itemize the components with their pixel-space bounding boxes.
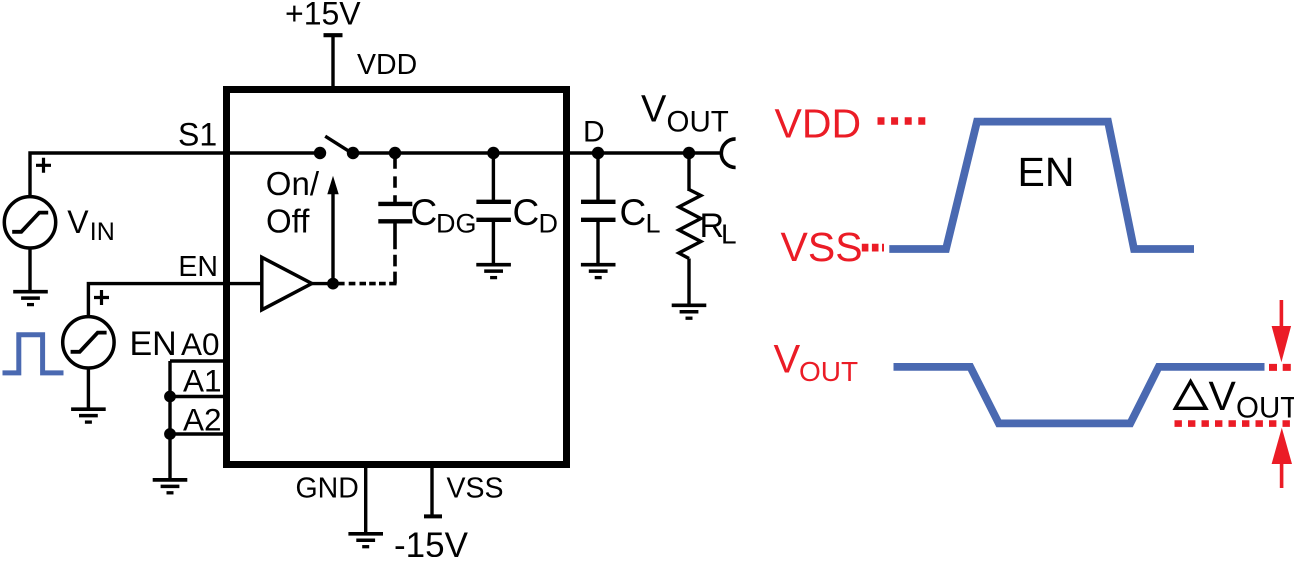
dashed wire buffer to CDG (horizontal) — [333, 282, 397, 286]
arrow up (red) — [1280, 463, 1284, 488]
VIN ramp symbol — [12, 213, 48, 232]
resistor RL — [679, 190, 701, 259]
switch S1 blade — [325, 136, 348, 151]
wire A bus vertical — [168, 361, 171, 478]
svg-text:A0: A0 — [181, 326, 220, 362]
svg-text:GND: GND — [296, 472, 359, 504]
svg-text:C: C — [411, 192, 438, 233]
VSS dotted level (red) — [862, 244, 884, 252]
IC box U1 — [227, 90, 567, 465]
node CDG top — [389, 147, 401, 159]
voltage source VIN — [4, 197, 55, 248]
VDD dotted level (red) — [878, 117, 926, 125]
svg-text:-15V: -15V — [394, 526, 469, 557]
VSS pin wire — [430, 468, 433, 515]
wire S1 input segment — [30, 153, 321, 196]
ground CL — [581, 265, 616, 278]
svg-text:IN: IN — [90, 218, 115, 246]
wire CD top — [492, 153, 495, 200]
svg-text:V: V — [1209, 373, 1237, 419]
deltaVOUT dotted level (red) — [1175, 420, 1294, 427]
VOUT waveform (blue) — [894, 367, 1265, 424]
svg-text:A2: A2 — [183, 402, 222, 438]
svg-text:S1: S1 — [178, 117, 217, 153]
svg-text:VDD: VDD — [775, 101, 862, 147]
arrow down (red) — [1280, 300, 1284, 327]
wire A2 — [170, 432, 226, 435]
+15V supply bar — [324, 33, 343, 37]
capacitor CD — [476, 200, 511, 204]
svg-text:VSS: VSS — [781, 224, 863, 270]
ground GND pin — [348, 534, 383, 547]
svg-text:D: D — [539, 209, 559, 239]
svg-text:OUT: OUT — [1236, 392, 1294, 425]
node A2 junction — [164, 428, 176, 440]
ground EN source — [71, 409, 106, 422]
node switch right — [347, 147, 359, 159]
voltage source EN plus sign — [94, 290, 109, 305]
svg-text:Off: Off — [266, 203, 310, 240]
deltaVOUT label — [1175, 382, 1206, 409]
voltage source VIN plus sign — [36, 158, 51, 173]
wire EN input — [88, 284, 261, 315]
svg-text:On/: On/ — [266, 165, 320, 202]
ground CD — [476, 265, 511, 278]
svg-text:V: V — [67, 204, 89, 240]
svg-text:EN: EN — [178, 251, 218, 283]
wire switch to output — [352, 151, 723, 154]
svg-text:VDD: VDD — [357, 49, 417, 81]
ground VIN — [13, 292, 48, 305]
wire EN source to ground — [87, 368, 90, 408]
svg-text:V: V — [641, 89, 667, 131]
-15V supply bar — [424, 514, 442, 518]
GND pin wire — [364, 468, 367, 532]
svg-text:A1: A1 — [183, 363, 222, 399]
wire CL top — [596, 153, 599, 200]
dashed wire CDG vertical upper — [393, 155, 397, 204]
VOUT high dotted extension (red) — [1269, 364, 1291, 371]
ground RL — [672, 305, 707, 318]
dashed wire CDG vertical lower — [393, 221, 397, 284]
svg-text:EN: EN — [130, 325, 177, 363]
svg-text:D: D — [583, 116, 605, 149]
svg-text:+15V: +15V — [285, 0, 361, 32]
svg-text:OUT: OUT — [667, 106, 729, 139]
ground A pins — [153, 480, 188, 493]
svg-text:C: C — [620, 192, 647, 233]
svg-text:L: L — [646, 209, 661, 239]
wire A0 — [170, 359, 226, 362]
wire RL top — [687, 153, 690, 191]
EN ramp symbol — [71, 333, 107, 352]
EN pulse waveform (blue) — [3, 335, 64, 373]
svg-text:C: C — [513, 192, 540, 233]
output terminal connector — [721, 139, 735, 168]
svg-text:DG: DG — [436, 209, 477, 239]
node RL — [683, 147, 695, 159]
svg-text:V: V — [774, 338, 801, 382]
voltage source EN — [63, 317, 114, 368]
wire RL bottom — [687, 259, 690, 305]
buffer amplifier (enable driver) — [262, 257, 312, 310]
wire buffer output — [312, 282, 333, 285]
VDD pin wire — [331, 35, 334, 90]
On/Off control arrow — [331, 193, 334, 284]
node D — [592, 147, 604, 159]
node buffer output — [327, 278, 339, 290]
capacitor CL — [581, 200, 616, 204]
node CD — [487, 147, 499, 159]
svg-text:L: L — [721, 219, 737, 250]
svg-text:VSS: VSS — [447, 472, 504, 504]
node A1 junction — [164, 391, 176, 403]
capacitor CDG — [378, 202, 412, 206]
wire A1 — [170, 395, 226, 398]
svg-text:OUT: OUT — [799, 356, 858, 387]
svg-text:EN: EN — [1018, 149, 1075, 195]
EN waveform (blue) — [889, 122, 1194, 249]
wire VIN to ground — [28, 248, 31, 290]
wire CL bottom — [596, 222, 599, 263]
wire CD bottom — [492, 222, 495, 263]
node switch left — [314, 147, 326, 159]
